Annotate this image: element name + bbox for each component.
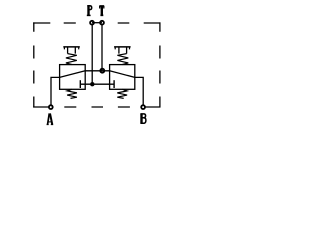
enclosure dashed border right edge <box>159 22 161 107</box>
valve V1 top spring zigzag <box>66 54 77 65</box>
wire P vertical line <box>91 25 93 85</box>
valve V2 adjuster bar <box>114 46 131 48</box>
valve V1 spool diagonal <box>60 71 86 78</box>
valve V2 pilot bar <box>113 80 115 88</box>
valve V2 adjuster bar ticks <box>115 48 129 50</box>
port P circle <box>90 21 94 25</box>
valve V1 adjuster legs <box>68 48 76 54</box>
wire lower pilot horizontal line <box>80 83 114 85</box>
label B <box>140 114 146 123</box>
wire P-T link <box>92 22 102 24</box>
port T circle <box>100 21 104 25</box>
valve V2 body (right) <box>110 65 135 90</box>
valve V1 adjuster bar ticks <box>64 48 78 50</box>
label A <box>47 113 54 124</box>
valve V2 top spring zigzag <box>117 54 128 65</box>
valve V2 bottom spring zigzag <box>117 89 127 98</box>
enclosure dashed border bottom edge <box>33 106 160 108</box>
port A circle <box>49 105 53 109</box>
wire B branch <box>135 77 143 106</box>
valve V1 bottom spring zigzag <box>67 89 77 98</box>
label P <box>87 5 92 15</box>
valve V2 spool diagonal <box>110 71 135 78</box>
port B circle <box>141 105 145 109</box>
valve V1 body (left) <box>60 65 86 90</box>
valve V1 pilot bar <box>79 80 81 88</box>
valve V1 adjuster bar <box>63 46 80 48</box>
enclosure dashed border left edge <box>33 22 35 107</box>
wire upper pilot horizontal line <box>85 70 109 72</box>
junction ring on T line <box>100 69 104 73</box>
enclosure dashed border top edge <box>33 22 160 24</box>
label T <box>99 6 104 15</box>
junction dot on P line <box>90 82 94 86</box>
wire T vertical line <box>101 25 103 71</box>
valve V2 adjuster legs <box>119 48 127 54</box>
wire A branch <box>51 77 60 106</box>
